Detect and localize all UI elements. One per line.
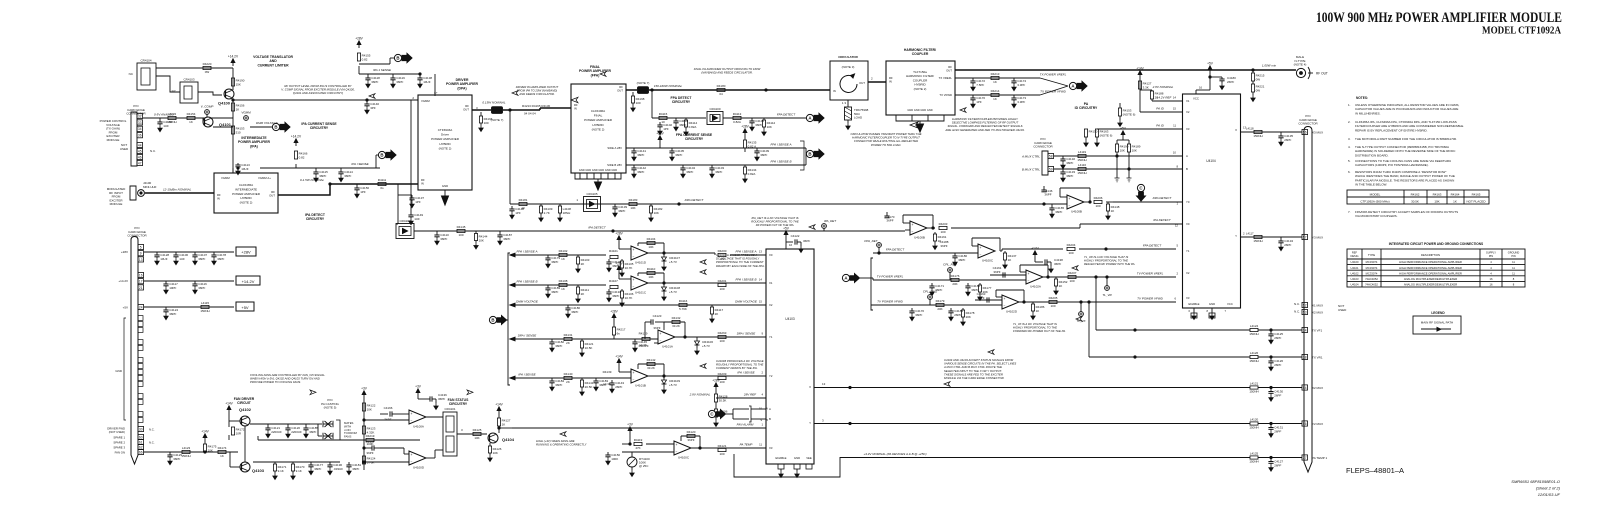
wire harmonic filter RF OUT to N connector [955,69,1296,71]
svg-text:SPARE 1: SPARE 1 [113,436,125,440]
svg-text:62: 62 [139,445,143,449]
wire SIDE A sense row [626,147,806,149]
svg-text:(NOTE 7): (NOTE 7) [491,118,504,122]
resistor R4105 10.7K gnd [621,259,623,261]
svg-text:PIN: PIN [1489,254,1493,258]
wire PA ID row 1 [1140,111,1182,113]
resistor R4117 2K gnd [711,305,713,307]
svg-text:R41245.76K: R41245.76K [367,457,376,465]
svg-text:X3: X3 [769,446,773,450]
bus wire Y2 MUX row [814,423,1230,425]
svg-text:TYPE: TYPE [1368,253,1375,257]
svg-text:GND: GND [794,456,800,460]
inductor L4108 18NH to gnd [559,204,561,206]
resistor R4220 0W [203,66,211,69]
svg-text:TX VF1: TX VF1 [1312,329,1323,333]
svg-text:IPA 1 SENSE: IPA 1 SENSE [373,68,392,72]
svg-text:+3.4V NOMINAL (PA DEVICES A &: +3.4V NOMINAL (PA DEVICES A & B @ +25C) [863,452,926,456]
svg-text:HIGH PERFORMANCE OPERATIONAL: HIGH PERFORMANCE OPERATIONAL AMPLIFIER [1399,271,1462,275]
wire IPA RF OUT to DPA RF IN [278,184,418,195]
wires C marker to A B pins [726,413,733,415]
connector J (power control) body [131,112,137,166]
+5V flag box [236,302,254,311]
svg-text:150NH: 150NH [1249,459,1258,463]
svg-text:U4101A: U4101A [662,344,673,348]
svg-text:TX VFWD: TX VFWD [939,93,952,97]
svg-text:Y: Y [1235,234,1237,238]
svg-text:150NH: 150NH [181,454,190,458]
28V REF row [715,387,717,391]
resistor R4119 47K [634,442,642,445]
svg-text:B: B [396,56,399,61]
svg-text:X: X [809,385,811,389]
svg-text:FAN ON: FAN ON [115,451,125,455]
svg-text:13.3K: 13.3K [639,343,647,347]
svg-text:R4120: R4120 [687,430,696,434]
svg-text:IN: IN [833,89,836,93]
svg-text:SPARE 3: SPARE 3 [113,446,125,450]
svg-text:+: + [912,223,914,227]
svg-text:61: 61 [139,440,143,444]
wire DPA detect row y204 [510,203,679,205]
svg-text:FPA DETECT: FPA DETECT [777,113,797,117]
capacitor C4181 36PF [348,462,350,465]
svg-text:L4119: L4119 [1078,150,1086,154]
analog multiplexer U4103 74HC4052 [766,249,814,464]
svg-text:+28V: +28V [656,132,664,136]
IC power/ground table [1347,249,1525,287]
capacitor C4109 36PF [756,148,758,151]
circulator box [830,61,868,100]
svg-text:HIGH PERFORMANCE OPERATIONAL: HIGH PERFORMANCE OPERATIONAL AMPLIFIER [1399,260,1462,264]
svg-text:IPA_DET IS A DC VOLTAGE THAT I: IPA_DET IS A DC VOLTAGE THAT ISROUGHLY P… [751,216,799,227]
svg-text:7.: 7. [1348,210,1351,214]
svg-text:Y: Y [809,421,811,425]
svg-text:36PF: 36PF [653,326,660,330]
svg-text:R4125: R4125 [473,428,482,432]
svg-text:B: B [1186,167,1188,171]
wire IPA sense rail [295,164,297,168]
svg-text:VCC: VCC [1193,97,1199,101]
RF input connector J4100 MINI-UHF [130,186,136,200]
svg-text:A: A [1186,154,1188,158]
svg-text:1.: 1. [1348,103,1351,107]
svg-text:+28V: +28V [741,125,749,129]
svg-text:100: 100 [719,380,724,384]
junction dot IPA detect [612,230,614,232]
svg-text:IPA I SENSE: IPA I SENSE [351,162,369,166]
svg-text:R4205: R4205 [1049,296,1058,300]
relay CR4104 [137,63,156,90]
svg-text:C4167: C4167 [366,440,375,444]
svg-text:−: − [1004,304,1006,308]
svg-text:+: + [633,278,635,282]
resistor R4127b 1K [497,418,500,426]
svg-text:R4207: R4207 [1068,271,1077,275]
connector pin 56 X3 MUX [1302,129,1308,134]
wire: Q4100 collector rail to DPA VGMM pin [233,99,418,101]
svg-text:+: + [660,332,662,336]
capacitor C4133 36PF [1062,169,1064,172]
svg-text:LEGEND: LEGEND [1431,311,1445,315]
resistor R4219 100K [366,438,374,441]
inductor L4116 150NH [1078,167,1086,170]
svg-text:100: 100 [458,233,463,237]
svg-text:+28V: +28V [712,379,720,383]
svg-text:R4176: R4176 [951,274,960,278]
svg-text:14: 14 [1173,96,1177,100]
svg-text:TV POWER VREFL: TV POWER VREFL [877,275,904,279]
harmonic filter hybrid block TLF7150a [886,61,955,115]
svg-text:OUT: OUT [946,68,952,72]
svg-text:+14V: +14V [1136,67,1144,71]
svg-text:24: 24 [139,305,143,309]
capacitor C4123 36PF feedback [655,321,664,323]
svg-text:32: 32 [138,114,142,118]
svg-text:−: − [411,419,413,423]
svg-text:DPA I SENSE: DPA I SENSE [518,334,538,338]
svg-text:+: + [1028,272,1030,276]
svg-text:X2: X2 [769,303,773,307]
svg-text:DPA DETECT: DPA DETECT [685,198,705,202]
resistor R4178 20K gnd [962,308,964,310]
svg-text:R41350.82 A: R41350.82 A [748,141,757,149]
svg-text:R41234.32K: R41234.32K [367,427,376,435]
svg-text:VEE: VEE [806,456,812,460]
resistor R4106 10.7K gnd [621,289,623,291]
svg-text:X0: X0 [769,253,773,257]
svg-text:CPL_REV: CPL_REV [943,263,958,267]
svg-text:Y2 MUX: Y2 MUX [1312,422,1323,426]
svg-text:R41340.82A: R41340.82A [748,168,757,176]
svg-text:12-15dBm NOMINAL: 12-15dBm NOMINAL [163,188,192,192]
op-amp U4100A fan status [409,410,426,424]
svg-text:L4123: L4123 [182,446,191,450]
svg-text:R4183: R4183 [629,198,638,202]
capacitor C4129 36PF [169,452,171,455]
capacitor C4180 26PF [1221,77,1223,79]
svg-text:L4120: L4120 [1250,418,1259,422]
svg-text:SIDE A 28V: SIDE A 28V [607,146,622,150]
wire IPA detect buffered to U4104 [951,227,1080,229]
transistor Q4102 [240,416,250,426]
capacitor C filter row pin 56 [1270,424,1272,428]
svg-text:X2 MUX: X2 MUX [1312,311,1323,315]
svg-text:−: − [912,230,914,234]
resistor R4182 10K to gnd [650,204,652,206]
capacitor C4163 36PF input [975,299,1002,301]
legend box [1413,316,1461,334]
svg-text:15: 15 [759,300,763,304]
resistor R4263 100 [718,335,726,338]
svg-text:R4206: R4206 [1094,196,1103,200]
svg-text:PA TEMP 1: PA TEMP 1 [1312,456,1328,460]
svg-text:36PF: 36PF [993,270,1000,274]
svg-text:R4201: R4201 [718,279,727,283]
junction dot DPA detect [678,203,680,205]
resistor R4113 0.82A [733,116,741,119]
transistor Q4104 [488,433,498,443]
capacitor C4124 36PF [165,307,167,310]
svg-text:100: 100 [940,230,945,234]
svg-text:B: B [380,153,383,158]
svg-text:150NH: 150NH [1249,389,1258,393]
svg-text:04: 04 [719,92,723,96]
capacitor C4142 36PF [633,165,635,168]
resistor R4116 5.76K [679,303,687,306]
svg-text:100: 100 [1050,304,1055,308]
svg-text:U4100: U4100 [1351,260,1359,264]
power +28V side sense [744,133,746,137]
resistor R4177 20K gnd [979,283,981,285]
svg-text:FPA I SENSE B: FPA I SENSE B [735,278,756,282]
capacitor C4101 36PF [675,118,677,121]
svg-text:DRIVER PA AMPLIFIER OUTPUTFROM: DRIVER PA AMPLIFIER OUTPUTFROM IPA TO 20… [516,85,559,96]
capacitor C4105 36PF [671,148,673,151]
svg-text:+28V: +28V [121,250,128,254]
op-amp U4102A [1026,270,1043,284]
marker A in: TV POWER [842,274,849,281]
svg-text:CIRCULATOR: CIRCULATOR [838,55,858,59]
wire U4103 Y out [813,423,815,425]
svg-text:N.C.: N.C. [150,149,156,153]
+5V pin 24 [138,304,144,309]
svg-text:U4101: U4101 [1351,266,1359,270]
resistor R4196 100 to ground [480,112,482,116]
inductor L4123 150NH [182,450,190,453]
capacitor C filter row pin 34 [1270,330,1272,334]
svg-text:TL_VR IS A DC VOLTAGE THAT ISH: TL_VR IS A DC VOLTAGE THAT ISHIGHLY PROP… [1084,255,1136,266]
capacitor C4165 36PF to gnd [1051,204,1053,208]
wire CR4104 to CR4103 [156,76,180,92]
GND bracket [124,318,126,420]
+5V rail wire [144,306,234,308]
svg-text:37: 37 [1303,456,1307,460]
svg-text:100: 100 [1069,279,1074,283]
svg-text:10K: 10K [1434,199,1439,203]
svg-text:100: 100 [719,339,724,343]
svg-text:R4116: R4116 [679,299,688,303]
mux ctrl connector body [1042,151,1048,175]
TV POWER VFWD row [871,304,1002,306]
capacitor C4121 2200UF [267,424,269,428]
svg-text:1K: 1K [993,80,997,84]
IPA hybrid block CLF6465A [214,173,278,213]
svg-text:16: 16 [1199,86,1203,90]
power +14V Q4104 [498,411,500,415]
resistor R4214 1K [991,93,999,96]
capacitor C4185 36PF [305,424,307,428]
svg-text:GND: GND [442,184,448,188]
bracket FPA I sense [800,141,804,170]
diode CR4109 +5.7V [663,376,665,380]
transistor Q4100 [224,89,234,99]
svg-text:CR4104: CR4104 [140,59,151,63]
input bracket TV rows [871,258,873,310]
svg-text:X2: X2 [1186,271,1190,275]
svg-text:150NH: 150NH [1249,425,1258,429]
svg-text:11: 11 [1512,271,1515,275]
test point CPL_REV [948,268,953,273]
svg-text:R41140.82A: R41140.82A [689,121,698,129]
svg-text:+: + [1069,197,1071,201]
capacitor C filter row pin 38 [1270,357,1272,361]
wire VREFL drop to TX VF1 row [1095,277,1097,330]
connector pin 34 TX VF1 [1302,327,1308,332]
svg-text:+3V: +3V [627,423,634,427]
connector pin 32 [137,113,143,118]
power +28V for IPA sense [358,45,360,49]
capacitor C filter row pin 54 [1270,388,1272,392]
DMM voltage row wire [545,304,745,306]
wire FPA detect tap down [651,90,653,118]
op-amp U4100A (IPA detect buffer) [910,221,927,235]
svg-text:FPA I SENSE A: FPA I SENSE A [517,250,538,254]
svg-text:IN: IN [421,182,424,186]
power +28V U4101C [618,270,620,274]
svg-text:R4142: R4142 [647,358,656,362]
svg-text:16: 16 [139,273,143,277]
svg-text:Q4104: Q4104 [502,437,515,442]
power +28V U4101A label [613,318,615,322]
svg-text:9: 9 [140,252,142,256]
resistor R4152 1K gnd [1055,277,1057,279]
resistor R4205 100 [1049,300,1057,303]
capacitor C4187 36PF [499,231,501,235]
wire CR4104 top to +14.2V rail [156,67,233,69]
svg-text:0W: 0W [205,70,210,74]
svg-text:TL_VR: TL_VR [1102,293,1112,297]
svg-text:N.C.: N.C. [149,428,155,432]
svg-text:+3V: +3V [361,387,368,391]
svg-text:TV POWER VREFL: TV POWER VREFL [1137,272,1164,276]
+14.2V rail wire [144,280,234,282]
svg-text:ENABLE: ENABLE [775,456,786,460]
svg-text:R4110: R4110 [647,267,656,271]
svg-text:28V REF: 28V REF [743,393,756,397]
op-amp U4101D (FPA side A) [631,246,648,260]
svg-text:+14V: +14V [225,402,233,406]
wire Q4100 emitter down to IPA supply node [232,113,234,173]
resistor R4207 100 [1068,275,1076,278]
svg-text:+5V: +5V [1120,127,1127,131]
capacitor C4116 36PF [194,281,196,284]
svg-text:47K: 47K [635,446,640,450]
resistor R4181 10 [519,202,527,205]
svg-text:14.2V REF: 14.2V REF [1157,96,1172,100]
capacitor C4102 1PF [659,122,661,125]
svg-text:MAIN RF SIGNAL PATH: MAIN RF SIGNAL PATH [1421,321,1453,325]
feedback R4120 [680,436,682,441]
+28V pins 5 9 13 [138,244,144,249]
svg-text:R410610.7K: R410610.7K [625,292,634,300]
capacitor C4194 36PF [608,289,610,292]
capacitor C4146 36PF feedback [1039,191,1041,193]
resistor R4198 100 to ground [632,92,634,96]
IPA I sense row wire [545,377,631,379]
test point IPA_DET [822,224,827,229]
svg-text:74HC4052: 74HC4052 [1365,283,1378,287]
svg-text:59: 59 [1049,167,1053,171]
connector pin 46 [137,154,143,159]
test point TL_VR [1105,286,1110,291]
svg-text:−: − [980,253,982,257]
inductor L filter row pin 54 [1250,386,1258,389]
svg-text:L410818NH: L410818NH [563,207,572,215]
inductor L filter row pin 37 [1250,456,1258,459]
svg-text:IPA DETECT: IPA DETECT [588,226,607,230]
svg-text:C41743.3PF: C41743.3PF [1017,79,1026,87]
svg-text:X1: X1 [1186,99,1190,103]
wires opamps to CR4101 [426,416,443,418]
capacitor C4100 36PF [751,118,753,121]
inductor L4115 150NH [201,305,209,308]
svg-text:U4103: U4103 [1351,277,1359,281]
resistor R4163 NOTE 6 [1095,129,1098,137]
svg-text:0.15W NOMINAL: 0.15W NOMINAL [482,101,506,105]
op-amp U4100B (DPA detect buffer) [1067,195,1084,209]
svg-text:X3: X3 [1186,127,1190,131]
svg-text:DMM VOLTAGE: DMM VOLTAGE [735,300,758,304]
capacitor C4120 2200UF [287,424,289,428]
ferrite beads (NOTE 7) FPA output [638,87,649,90]
power +14V U4102A and C4138 [1034,255,1036,259]
svg-text:R410510.7K: R410510.7K [625,262,634,270]
capacitor C4198 36PF [952,252,955,254]
svg-text:1K: 1K [1453,199,1457,203]
resistor R4111b 2K gnd row2 [577,285,579,287]
svg-text:IN: IN [574,107,577,111]
svg-text:+28V: +28V [615,262,623,266]
relay CR4103 [180,82,198,103]
svg-text:1K: 1K [561,287,565,291]
svg-text:L4121: L4121 [1250,382,1259,386]
feedback loop U4102D [996,296,1002,298]
inductor L filter row pin 38 [1250,355,1258,358]
svg-text:ANALOG MULTIPLEXER/DEMULTIPLE: ANALOG MULTIPLEXER/DEMULTIPLEXER [1404,283,1457,287]
inductor L filter row pin 56 [1250,422,1258,425]
svg-text:U4100A: U4100A [413,424,424,428]
svg-text:ANALOG MULTIPLEXER/DEMULTIPLE: ANALOG MULTIPLEXER/DEMULTIPLEXER [1404,277,1457,281]
resistor R4145 100 [457,229,465,232]
branch to U4103 mux ctrl [1116,156,1118,178]
op-amp U4101C (FPA side B) [631,276,648,290]
svg-text:Y3 MUX: Y3 MUX [1312,236,1323,240]
resistor R4189 10K [1127,144,1130,152]
svg-text:GND GND GND GND GND GND: GND GND GND GND GND GND [579,168,617,172]
svg-text:DPA DETECT: DPA DETECT [1153,196,1173,200]
svg-text:11: 11 [1173,124,1176,128]
capacitor C4167 36PF [364,447,372,449]
svg-text:FINAL PA AMPLIFIER OUTPUT FROM: FINAL PA AMPLIFIER OUTPUT FROM IPA TO 16… [694,67,761,75]
resistor R4156 1K [231,103,234,111]
svg-text:U4100C: U4100C [678,455,690,459]
feedback loop U4102A [1020,271,1026,273]
resistor R4172 10R [228,421,230,427]
svg-text:IPA I SENSE: IPA I SENSE [737,371,755,375]
fan on wire [144,451,238,453]
resistor R4166 0.82 [294,151,297,159]
svg-text:4.: 4. [1348,145,1351,149]
svg-text:10K: 10K [630,206,635,210]
svg-text:+14V: +14V [615,355,623,359]
capacitor C4173 3.3PF [1013,95,1015,98]
svg-text:R4101: R4101 [609,249,618,253]
svg-text:TV POWER VFWD: TV POWER VFWD [1137,297,1163,301]
svg-text:−: − [411,460,413,464]
svg-text:5.: 5. [1348,159,1351,163]
svg-text:L4117: L4117 [1246,232,1254,236]
